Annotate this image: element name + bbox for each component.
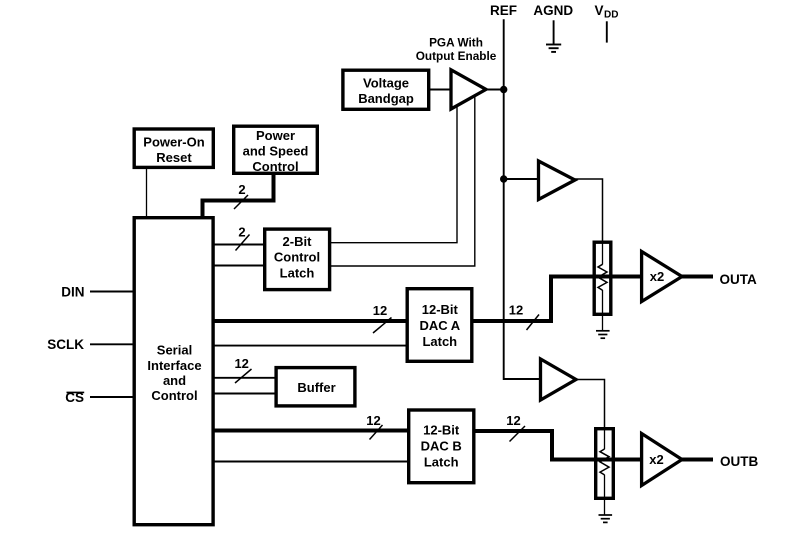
- svg-text:12: 12: [234, 356, 248, 371]
- svg-text:12: 12: [506, 413, 520, 428]
- wire PGA output to REF net: [485, 89, 504, 91]
- svg-text:PGA With: PGA With: [429, 35, 483, 49]
- wire serial interface to buffer lower: [213, 393, 277, 395]
- box voltage bandgap: [343, 70, 429, 109]
- svg-text:SCLK: SCLK: [47, 337, 84, 352]
- bus width marker 12 on buffer input: [234, 356, 251, 383]
- svg-text:2: 2: [238, 182, 245, 197]
- wire SCLK input stub: [90, 343, 134, 345]
- svg-text:Latch: Latch: [422, 334, 457, 349]
- ground under resistor B: [599, 515, 613, 522]
- svg-text:12-Bit: 12-Bit: [422, 302, 459, 317]
- wire 2-bit bus serial interface to control latch: [213, 244, 265, 246]
- svg-text:Latch: Latch: [424, 454, 459, 469]
- svg-text:Control: Control: [151, 388, 197, 403]
- svg-text:12: 12: [373, 303, 387, 318]
- svg-text:and Speed: and Speed: [243, 143, 309, 158]
- box 12-bit DAC B latch: [409, 410, 474, 483]
- svg-text:x2: x2: [650, 269, 664, 284]
- op-amp PGA with output enable U1: [451, 70, 486, 109]
- wire VDD stub: [606, 21, 608, 42]
- svg-text:V: V: [595, 3, 604, 18]
- svg-text:DD: DD: [604, 10, 618, 21]
- bus width marker 2 on power control bus: [234, 182, 248, 209]
- svg-text:Control: Control: [274, 250, 320, 265]
- wire power-on reset to serial interface: [146, 168, 148, 218]
- svg-text:Reset: Reset: [156, 150, 192, 165]
- svg-text:Control: Control: [252, 159, 298, 174]
- svg-text:2-Bit: 2-Bit: [283, 234, 313, 249]
- bus width marker 12 on DAC B latch output: [506, 413, 525, 442]
- pin label CS with overline: [65, 390, 84, 405]
- wire serial interface to control latch lower: [213, 265, 265, 267]
- wire serial interface to DAC B latch lower: [213, 461, 409, 463]
- op-amp x2 gain B: [642, 434, 682, 486]
- op-amp buffer A: [539, 161, 576, 200]
- wire buffer B output to resistor B top: [575, 380, 605, 430]
- svg-text:and: and: [163, 373, 186, 388]
- wire 12-bit bus serial interface to DAC B latch: [213, 429, 409, 433]
- wire DIN input stub: [90, 291, 134, 293]
- bus width marker 2 on control latch input: [236, 224, 250, 250]
- bus width marker 12 on DAC A latch output: [509, 303, 539, 331]
- svg-text:AGND: AGND: [533, 3, 573, 18]
- svg-text:OUTA: OUTA: [720, 272, 757, 287]
- pin label VDD: [595, 3, 619, 21]
- node junction dot REF / PGA output: [500, 86, 507, 93]
- svg-text:DIN: DIN: [61, 284, 84, 299]
- box buffer: [276, 368, 355, 406]
- svg-text:DAC A: DAC A: [419, 318, 460, 333]
- svg-text:REF: REF: [490, 3, 517, 18]
- svg-text:Bandgap: Bandgap: [358, 91, 414, 106]
- box power and speed control: [234, 126, 318, 174]
- svg-text:12-Bit: 12-Bit: [423, 423, 460, 438]
- wire 2-wide bus power and speed control to serial interface: [203, 174, 274, 218]
- box serial interface and control U2: [134, 218, 213, 525]
- node junction dot REF / buffer A input: [500, 175, 507, 182]
- svg-text:Output Enable: Output Enable: [416, 49, 497, 63]
- wire control latch output 2 to PGA enable: [330, 96, 475, 266]
- svg-text:2: 2: [238, 224, 245, 239]
- ground under resistor A: [596, 331, 610, 338]
- wire 12-bit bus DAC B latch through resistor B to x2 B: [474, 431, 642, 460]
- bus width marker 12 on DAC B latch input: [366, 413, 382, 440]
- svg-text:12: 12: [366, 413, 380, 428]
- wire x2 B output to OUTB: [682, 458, 713, 462]
- svg-text:Interface: Interface: [147, 358, 201, 373]
- wire REF net to buffer A input: [504, 178, 540, 180]
- wire x2 A output to OUTA: [682, 275, 713, 279]
- op-amp x2 gain A: [642, 252, 682, 302]
- box 12-bit DAC A latch: [407, 289, 472, 362]
- wire AGND stub: [553, 20, 555, 44]
- svg-text:Latch: Latch: [280, 265, 315, 280]
- resistor R1 output divider A: [594, 242, 611, 331]
- wire control latch output 1 to PGA enable: [330, 106, 457, 243]
- svg-text:Voltage: Voltage: [363, 76, 409, 91]
- svg-text:OUTB: OUTB: [720, 454, 758, 469]
- wire 12-bit bus serial interface to DAC A latch: [213, 319, 407, 323]
- svg-text:12: 12: [509, 303, 523, 318]
- svg-text:x2: x2: [649, 452, 663, 467]
- box 2-bit control latch: [265, 229, 330, 290]
- wire 12-bit bus DAC A latch through resistor A to x2 A: [472, 277, 642, 322]
- wire 12-bit bus serial interface to buffer: [213, 377, 277, 379]
- wire serial interface to DAC A latch lower: [213, 345, 407, 347]
- wire REF net vertical (REF pin down to buffer B input): [504, 19, 540, 379]
- bus width marker 12 on DAC A latch input: [373, 303, 392, 333]
- svg-text:Power-On: Power-On: [143, 134, 204, 149]
- wire CS input stub: [90, 396, 134, 398]
- box power-on reset: [134, 129, 213, 167]
- svg-text:DAC B: DAC B: [421, 438, 462, 453]
- op-amp buffer B: [541, 359, 577, 400]
- svg-text:Power: Power: [256, 128, 295, 143]
- svg-text:Serial: Serial: [157, 343, 192, 358]
- label PGA with output enable: [416, 35, 497, 63]
- wire bandgap output to PGA input: [429, 89, 451, 91]
- wire buffer A output to resistor A top: [575, 179, 603, 243]
- ground AGND symbol: [546, 45, 561, 52]
- svg-text:Buffer: Buffer: [297, 380, 335, 395]
- resistor R2 output divider B: [596, 429, 614, 515]
